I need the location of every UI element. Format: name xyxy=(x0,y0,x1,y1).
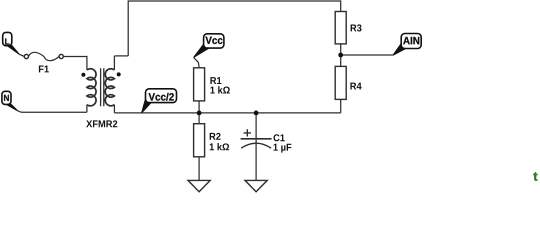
label R3 xyxy=(351,24,362,31)
wire C1 through xyxy=(255,113,257,180)
watermark t xyxy=(533,172,537,180)
flag L xyxy=(3,32,20,54)
resistor R4 xyxy=(335,66,346,99)
flag text Vcc xyxy=(205,37,222,44)
wire R4 bottom to mid rail xyxy=(340,99,342,113)
ground below C1 xyxy=(245,180,267,191)
transformer primary polarity dot xyxy=(81,73,85,77)
transformer secondary polarity dot xyxy=(117,72,121,76)
capacitor C1 plus sign xyxy=(244,129,251,136)
node dot R3/R4/AIN xyxy=(338,53,343,58)
label R4 xyxy=(350,83,361,90)
wire mid rail xyxy=(114,112,340,114)
label XFMR2 xyxy=(86,120,117,127)
node dot R1/R2 mid rail xyxy=(197,111,202,116)
wire Vcc flag to R1 xyxy=(194,57,200,67)
label R2 value xyxy=(210,143,229,150)
resistor R2 xyxy=(194,124,205,157)
node dot C1 mid rail xyxy=(254,111,259,116)
transformer core xyxy=(101,68,104,106)
wire fuse to primary top xyxy=(63,57,87,71)
capacitor C1 curved plate xyxy=(241,143,271,148)
resistor R1 xyxy=(194,68,205,101)
wire secondary top vertical xyxy=(113,56,115,70)
wire R3 bottom to node xyxy=(340,44,342,67)
label R1 value xyxy=(210,86,229,93)
label F1 xyxy=(39,66,49,73)
ground below R2 xyxy=(188,180,210,191)
flag N xyxy=(2,91,18,111)
label C1 value xyxy=(274,144,292,153)
wire top rail from transformer secondary to R3 xyxy=(128,1,341,56)
resistor R3 xyxy=(335,12,346,44)
flag Vcc/2 xyxy=(142,89,177,113)
wire R1 bottom to mid rail xyxy=(198,101,200,124)
wire secondary bottom to mid rail xyxy=(113,105,115,113)
wire R2 to ground xyxy=(198,157,200,181)
flag text AIN xyxy=(403,37,419,44)
label C1 xyxy=(274,134,285,141)
flag text L xyxy=(5,38,9,44)
wire primary bottom vertical xyxy=(86,105,88,113)
flag AIN xyxy=(393,34,421,56)
flag Vcc xyxy=(194,34,224,58)
wire secondary top jog xyxy=(114,55,128,57)
wire N flag pin to primary bottom xyxy=(18,111,87,112)
transformer XFMR2 secondary winding xyxy=(105,69,114,106)
flag text N xyxy=(4,95,9,101)
fuse F1 xyxy=(24,54,28,58)
transformer XFMR2 primary winding xyxy=(87,69,96,106)
flag text Vcc/2 xyxy=(149,93,174,101)
label R1 xyxy=(210,77,221,84)
label R2 xyxy=(210,133,221,140)
wire node to AIN flag xyxy=(341,54,393,56)
capacitor C1 top plate xyxy=(241,138,272,140)
wire L flag pin to fuse xyxy=(19,54,24,56)
